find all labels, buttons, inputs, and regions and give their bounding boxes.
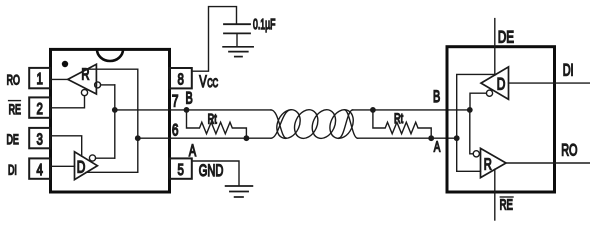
junction Rt right top — [370, 107, 376, 113]
svg-text:V: V — [199, 73, 207, 92]
driver D1 triangle (left IC) — [75, 152, 98, 180]
junction right B — [467, 107, 473, 113]
twisted pair twist loop 3 — [308, 106, 340, 142]
wire A bus (twisted pair to right transceiver) — [358, 137, 457, 139]
wire net A inside IC (vertical riser) — [137, 69, 139, 172]
svg-text:8: 8 — [177, 69, 184, 87]
resistor Rt (left termination) — [187, 110, 247, 138]
svg-text:CC: CC — [207, 77, 218, 90]
pin 8 box — [170, 68, 192, 88]
receiver R1 triangle (left IC) — [68, 64, 97, 94]
wire B bus (twisted pair to right transceiver) — [353, 109, 470, 111]
twisted pair cable exit curve (to A) — [344, 110, 357, 138]
label RE-bar (pin 2) — [9, 101, 22, 118]
wire D1 inverting output to B riser — [96, 157, 115, 159]
pin 4 box — [29, 158, 50, 178]
pin 3 box — [29, 128, 50, 148]
receiver R2 inverting input bubble — [473, 151, 479, 157]
svg-text:B: B — [186, 88, 193, 107]
twisted pair twist loop 1 — [272, 106, 304, 142]
svg-text:1: 1 — [36, 69, 43, 87]
svg-text:7: 7 — [172, 93, 179, 111]
pin 1 box — [29, 68, 50, 88]
driver D1 inverting output bubble — [89, 155, 95, 161]
twisted pair twist loop 2 — [290, 106, 322, 142]
junction Rt left bottom — [244, 135, 250, 141]
wire B bus (pin 7 to twisted pair) — [115, 109, 271, 111]
wire D1 direct output to A riser — [86, 171, 138, 173]
junction Rt right bottom — [428, 135, 434, 141]
svg-text:Rt: Rt — [208, 110, 218, 127]
wire R1 direct input to A riser — [89, 68, 138, 70]
svg-text:DE: DE — [498, 29, 514, 48]
wire capacitor to ground — [236, 33, 238, 46]
pin 2 box — [29, 97, 50, 117]
svg-text:2: 2 — [36, 99, 43, 117]
svg-text:RO: RO — [7, 74, 20, 88]
IC U1 package body — [51, 49, 170, 192]
label VCC (pin 8) — [199, 73, 218, 92]
capacitor C1 0.1uF plates — [224, 24, 250, 33]
svg-text:R: R — [81, 64, 89, 83]
wire RE-bar to receiver R2 enable — [494, 169, 496, 220]
svg-text:RE: RE — [500, 197, 513, 214]
svg-text:D: D — [497, 75, 506, 94]
wire D2 direct output to A junction — [457, 74, 496, 138]
svg-text:4: 4 — [36, 160, 43, 178]
wire A bus (pin 6 to twisted pair) — [138, 137, 271, 139]
wire net A to R2 direct input — [457, 138, 481, 171]
wire net B inside IC (vertical riser) — [114, 85, 116, 158]
svg-text:RE: RE — [9, 103, 22, 117]
svg-text:3: 3 — [36, 129, 43, 147]
svg-text:0.1µF: 0.1µF — [253, 16, 275, 33]
svg-text:DE: DE — [7, 134, 20, 148]
label RE-bar (right) — [500, 197, 513, 214]
wire VCC pin8 to bypass capacitor — [192, 7, 237, 72]
svg-text:B: B — [433, 87, 440, 106]
receiver R1 enable bubble — [81, 90, 87, 96]
ground symbol (pin 5) — [226, 186, 253, 197]
receiver R1 inverting input bubble — [95, 82, 101, 88]
resistor Rt (right termination) — [373, 110, 431, 138]
svg-text:A: A — [189, 141, 197, 160]
junction right A — [454, 135, 460, 141]
svg-text:R: R — [484, 154, 492, 173]
svg-text:5: 5 — [177, 160, 184, 178]
twisted pair cable exit curve (to B) — [339, 110, 353, 138]
junction left A — [135, 135, 141, 141]
twisted pair cable entry curve (A strand) — [271, 110, 291, 138]
svg-text:DI: DI — [8, 164, 17, 178]
wire R1 inverting input to B riser — [101, 84, 115, 86]
svg-text:DI: DI — [563, 60, 574, 79]
IC U1 orientation notch — [97, 49, 123, 61]
pin 5 box — [170, 158, 192, 178]
svg-text:A: A — [434, 138, 441, 155]
wire GND pin5 to ground — [192, 161, 239, 185]
svg-text:Rt: Rt — [394, 110, 404, 127]
svg-text:D: D — [77, 159, 86, 178]
twisted pair cable entry curve (B strand) — [271, 110, 286, 138]
wire DI pin4 to D1 input — [51, 165, 75, 167]
wire DE to driver D2 enable — [494, 19, 496, 75]
driver D2 triangle (right) — [481, 67, 509, 99]
receiver R2 triangle (right) — [481, 148, 507, 177]
wire RE pin2 to R1 enable bubble — [51, 96, 85, 108]
driver D2 inverting output bubble — [486, 90, 492, 96]
ground symbol (capacitor) — [223, 47, 253, 57]
wire DE pin3 to D1 enable — [51, 136, 82, 156]
junction Rt left top — [184, 107, 190, 113]
wire net B to R2 inverting input — [470, 110, 473, 154]
junction left B — [112, 107, 118, 113]
twisted pair twist loop 4 — [325, 106, 357, 142]
svg-text:RO: RO — [561, 140, 577, 159]
wire DI to driver D2 input — [509, 82, 590, 84]
IC U1 pin-1 dot — [62, 61, 68, 67]
svg-text:GND: GND — [199, 162, 224, 181]
wire receiver R2 output RO — [506, 162, 590, 164]
transceiver U2 box — [447, 47, 555, 192]
wire D2 inverting output to B junction — [470, 93, 486, 110]
wire RO pin1 to R1 apex — [51, 78, 68, 80]
